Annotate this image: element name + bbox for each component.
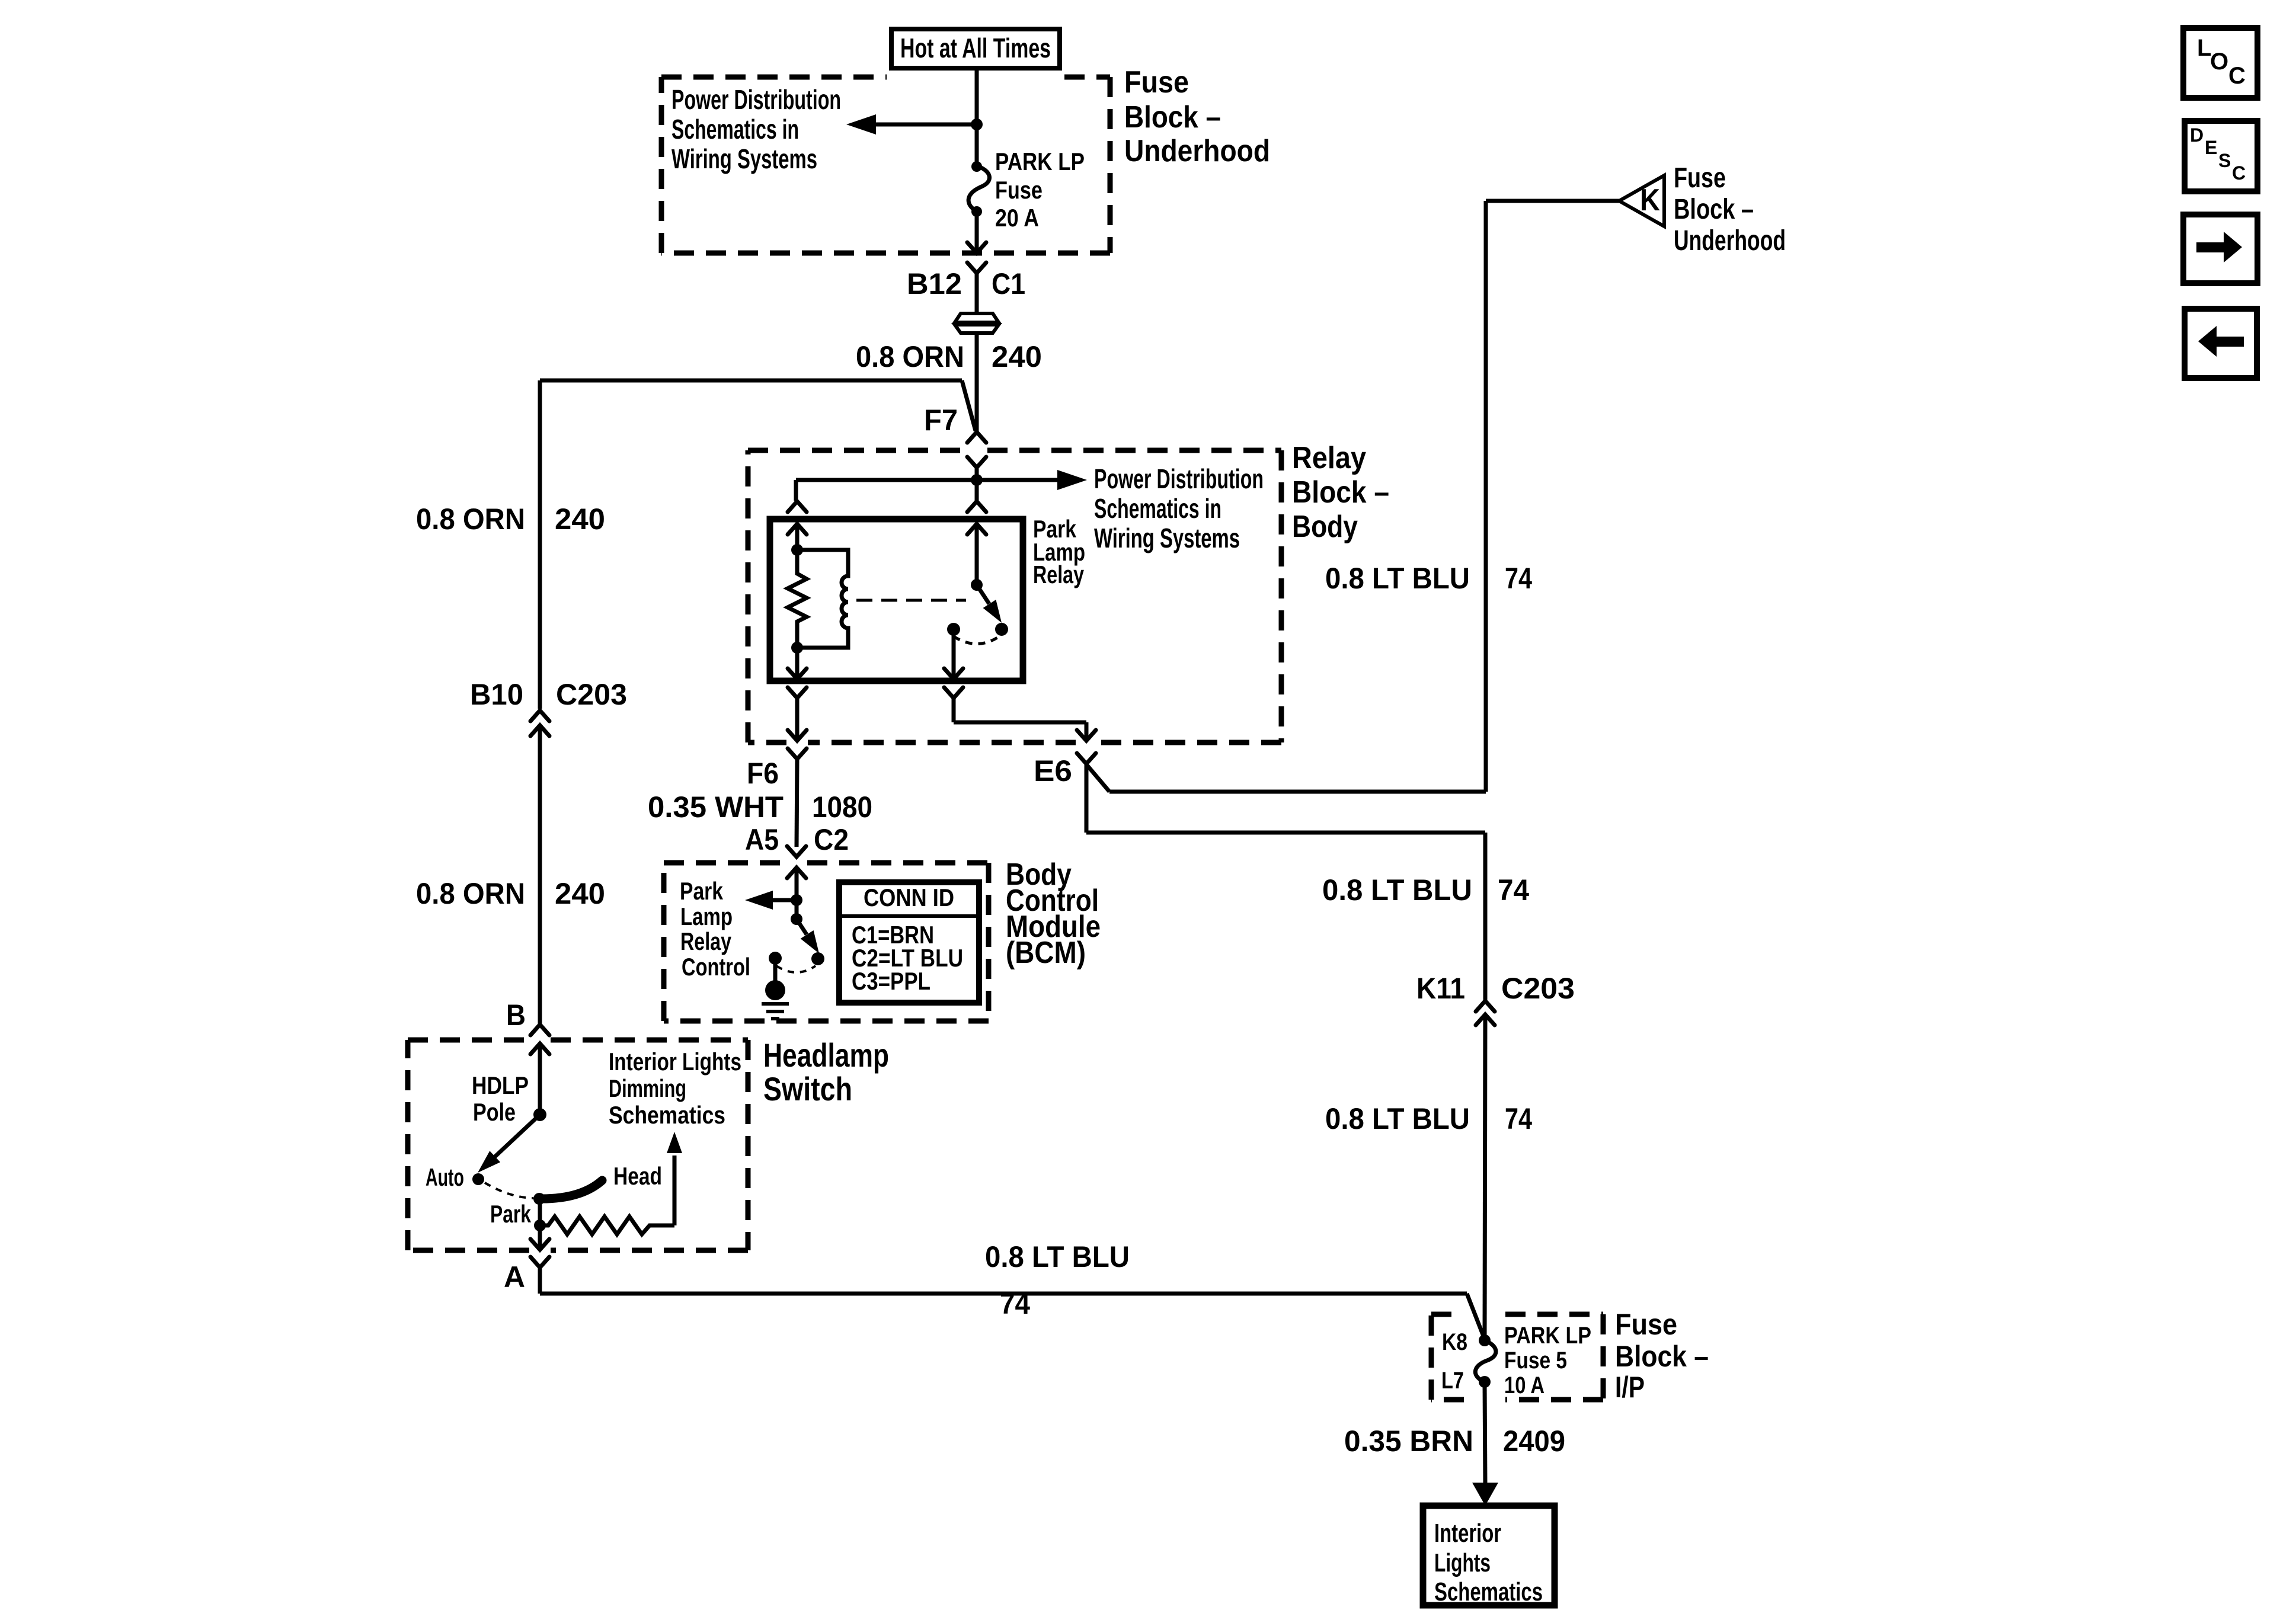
label Headlamp Switch — [763, 1036, 889, 1108]
svg-text:O: O — [2210, 49, 2228, 75]
svg-text:K11: K11 — [1416, 972, 1465, 1005]
svg-text:Hot at All Times: Hot at All Times — [900, 33, 1051, 63]
svg-text:S: S — [2218, 150, 2231, 171]
svg-text:B10: B10 — [470, 678, 523, 711]
connector F7 female — [967, 457, 986, 468]
dashed throw arc BCM switch — [776, 966, 816, 972]
wire arrow to Power Distribution Schematics — [846, 114, 977, 135]
wire label 0.35 BRN 2409 — [1344, 1425, 1565, 1458]
connector below relay box left — [788, 687, 807, 741]
svg-text:Block –: Block – — [1674, 194, 1754, 225]
svg-text:10 A: 10 A — [1504, 1372, 1544, 1398]
svg-text:Block –: Block – — [1615, 1340, 1709, 1373]
node HDLP pole — [533, 1108, 546, 1121]
svg-text:C203: C203 — [556, 678, 627, 711]
svg-text:240: 240 — [555, 877, 605, 910]
label Power Distribution Schematics in Wiring Systems relay — [1094, 463, 1264, 553]
connector pin B12 exit arrow — [967, 242, 986, 253]
svg-text:0.8 ORN: 0.8 ORN — [856, 340, 964, 373]
svg-text:Underhood: Underhood — [1674, 225, 1786, 257]
svg-text:E: E — [2205, 137, 2217, 158]
svg-text:0.8 LT BLU: 0.8 LT BLU — [985, 1240, 1130, 1273]
connector K11 C203 inline — [1476, 1001, 1495, 1340]
label Body Control Module BCM — [1006, 857, 1101, 970]
connector C1 female — [967, 263, 986, 273]
svg-text:Underhood: Underhood — [1124, 134, 1270, 168]
switch arm HDLP pole to Auto — [478, 1115, 540, 1173]
value label PARK LP Fuse 20 A — [995, 148, 1085, 232]
node coil top junction — [791, 544, 803, 556]
svg-text:240: 240 — [992, 340, 1042, 373]
svg-text:20 A: 20 A — [995, 204, 1039, 232]
svg-text:Power Distribution: Power Distribution — [1094, 463, 1264, 494]
connector K triangle Fuse Block Underhood — [1619, 175, 1664, 226]
svg-text:Relay: Relay — [1292, 441, 1366, 475]
svg-text:0.35 BRN: 0.35 BRN — [1344, 1425, 1473, 1458]
node coil bottom junction — [791, 642, 803, 654]
svg-text:Fuse 5: Fuse 5 — [1504, 1347, 1567, 1374]
svg-text:Fuse: Fuse — [1615, 1308, 1677, 1341]
pin label B12 C1 — [907, 267, 1025, 300]
wire C1 to grommet — [975, 273, 979, 313]
wire coil to F6 exit — [788, 648, 807, 679]
wire E6 down to K11 — [1086, 833, 1485, 1000]
fuse block underhood dashed box — [661, 77, 1110, 253]
wire grommet to F7 — [975, 333, 979, 432]
svg-text:Park: Park — [490, 1200, 531, 1228]
svg-text:0.8 LT BLU: 0.8 LT BLU — [1322, 873, 1472, 907]
svg-text:PARK LP: PARK LP — [1504, 1323, 1591, 1349]
value label PARK LP Fuse 5 10 A — [1504, 1323, 1591, 1398]
icon LOC box — [2183, 28, 2257, 98]
node park lamp relay control junction — [791, 894, 802, 906]
connector pin B into headlamp switch — [530, 1025, 549, 1054]
svg-text:I/P: I/P — [1615, 1371, 1645, 1404]
node resistor junction — [534, 1219, 546, 1231]
pin label A5 C2 — [745, 823, 849, 856]
svg-text:Control: Control — [682, 953, 750, 981]
connector below relay box right — [944, 687, 1096, 741]
relay coil input arrow — [788, 524, 807, 551]
wire arrow to Power Distribution Schematics relay — [796, 470, 1087, 501]
svg-text:Fuse: Fuse — [1674, 162, 1726, 194]
svg-text:K: K — [1640, 183, 1660, 217]
svg-text:0.8 ORN: 0.8 ORN — [416, 877, 525, 910]
connector E6 female below relay block — [1077, 753, 1096, 833]
wire K to E6 junction — [1086, 201, 1619, 792]
wire BCM input — [795, 868, 799, 919]
inductor relay coil — [797, 550, 848, 648]
svg-text:Dimming: Dimming — [609, 1074, 686, 1102]
wire contact to E6 exit — [944, 629, 963, 679]
wire label 0.35 WHT 1080 — [648, 790, 872, 824]
svg-text:Lights: Lights — [1434, 1548, 1491, 1577]
connector A5 into BCM — [787, 846, 806, 878]
wire arrow up to dimming schematics — [667, 1132, 682, 1225]
connector F7 male end — [967, 432, 986, 443]
label Park Lamp Relay — [1033, 515, 1085, 588]
fuse PARK LP Fuse 5 10 A — [1475, 1334, 1496, 1388]
label Relay Block - Body — [1292, 441, 1389, 544]
resistor relay internal — [788, 550, 807, 648]
wire label 0.8 ORN 240 — [856, 340, 1042, 373]
svg-text:0.8 ORN: 0.8 ORN — [416, 502, 525, 536]
svg-text:Block –: Block – — [1292, 475, 1389, 510]
node BCM switch pivot — [791, 913, 802, 925]
svg-text:C203: C203 — [1501, 972, 1575, 1005]
svg-text:Relay: Relay — [680, 927, 731, 955]
svg-text:74: 74 — [1498, 873, 1529, 907]
wire label 0.8 LT BLU 74 upper — [1325, 562, 1532, 595]
dashed throw arc relay switch — [954, 635, 1001, 644]
svg-text:Body: Body — [1292, 510, 1358, 544]
wire A to fuse block IP — [540, 1267, 1485, 1339]
svg-text:Wiring Systems: Wiring Systems — [1094, 523, 1240, 553]
wire label 0.8 ORN 240 left lower — [416, 877, 605, 910]
node BCM contact right — [811, 952, 824, 965]
svg-text:Fuse: Fuse — [1124, 65, 1189, 100]
svg-text:C1: C1 — [992, 267, 1025, 300]
svg-text:Auto: Auto — [426, 1163, 464, 1191]
svg-text:L: L — [2197, 35, 2211, 61]
svg-text:A: A — [504, 1260, 525, 1294]
svg-text:Fuse: Fuse — [995, 176, 1043, 204]
svg-text:(BCM): (BCM) — [1006, 936, 1086, 970]
svg-text:0.8 LT BLU: 0.8 LT BLU — [1325, 1102, 1470, 1135]
connector pin A exit — [530, 1239, 549, 1267]
svg-text:0.35 WHT: 0.35 WHT — [648, 790, 784, 824]
node Park position — [533, 1193, 545, 1205]
icon arrow left box — [2185, 309, 2257, 378]
switch arm BCM driver — [797, 919, 819, 953]
node BCM contact left — [769, 952, 782, 965]
svg-text:B: B — [506, 998, 526, 1032]
fuse PARK LP Fuse 20 A — [968, 161, 989, 217]
CONN ID table — [839, 882, 979, 1003]
svg-text:240: 240 — [555, 502, 605, 536]
switch lever Park to Head thick arc — [539, 1180, 602, 1199]
svg-text:B12: B12 — [907, 267, 962, 300]
fuse block IP dashed box — [1431, 1312, 1462, 1317]
BCM dashed box — [664, 860, 786, 866]
svg-text:C: C — [2232, 162, 2246, 184]
label Fuse Block - Underhood — [1124, 65, 1270, 168]
wire from Hot at All Times into fuse block — [975, 66, 979, 168]
svg-text:E6: E6 — [1034, 754, 1072, 788]
svg-text:CONN ID: CONN ID — [864, 884, 954, 911]
wire label 0.8 LT BLU 74 lower — [1325, 1102, 1532, 1135]
wire Park to resistor junction — [538, 1199, 542, 1249]
svg-text:F7: F7 — [924, 404, 958, 437]
svg-text:74: 74 — [1505, 562, 1532, 595]
node switch pivot — [971, 579, 983, 591]
headlamp switch dashed box — [408, 1038, 529, 1043]
pin label B10 C203 — [470, 678, 627, 711]
icon DESC box — [2185, 121, 2257, 191]
label Interior Lights Dimming Schematics — [609, 1048, 741, 1129]
node switch contact right — [995, 623, 1008, 636]
relay block body dashed box — [748, 448, 966, 453]
connector chevrons into relay — [788, 501, 986, 512]
svg-text:PARK LP: PARK LP — [995, 148, 1085, 175]
svg-text:Switch: Switch — [763, 1070, 852, 1108]
wire arrow to Park Lamp Relay Control — [745, 891, 797, 910]
dashed link coil to switch — [856, 599, 966, 602]
svg-text:Relay: Relay — [1033, 561, 1084, 588]
svg-text:Block –: Block – — [1124, 100, 1221, 135]
svg-text:2409: 2409 — [1503, 1425, 1565, 1458]
ground BCM — [762, 980, 789, 1019]
wire branch to headlamp switch — [540, 380, 976, 709]
svg-text:1080: 1080 — [812, 790, 872, 824]
wire label 0.8 LT BLU 74 middle — [1322, 873, 1529, 907]
svg-text:D: D — [2190, 124, 2204, 146]
resistor headlamp dimming — [540, 1217, 674, 1234]
label Fuse Block - IP — [1615, 1308, 1709, 1404]
label HDLP Pole — [472, 1071, 529, 1126]
connector F6 female below relay block — [788, 748, 807, 847]
label Park Lamp Relay Control — [680, 877, 750, 981]
wire relay switch common — [967, 524, 986, 585]
wire contact to ground — [773, 958, 778, 982]
connector B10 C203 inline — [530, 710, 549, 1025]
node junction power distribution relay — [971, 474, 983, 486]
label Power Distribution Schematics in Wiring Systems — [671, 84, 841, 174]
svg-text:C: C — [2228, 63, 2246, 89]
relay K1 park lamp relay box — [770, 519, 1023, 681]
svg-text:A5: A5 — [745, 823, 779, 856]
svg-text:Schematics: Schematics — [609, 1101, 725, 1129]
svg-text:Wiring Systems: Wiring Systems — [671, 143, 817, 174]
svg-text:Schematics in: Schematics in — [671, 114, 799, 145]
svg-text:Pole: Pole — [473, 1098, 516, 1126]
svg-text:C2: C2 — [814, 823, 849, 856]
dashed throw arc Auto to Park — [485, 1183, 533, 1198]
svg-text:K8: K8 — [1442, 1329, 1467, 1355]
node Interior Lights Schematics box — [1423, 1506, 1555, 1606]
node Auto contact — [472, 1173, 484, 1185]
wire label 0.8 ORN 240 left upper — [416, 502, 605, 536]
pin label K11 C203 — [1416, 972, 1575, 1005]
label Fuse Block - Underhood right — [1674, 162, 1786, 257]
svg-text:Park: Park — [680, 877, 724, 905]
node Hot at All Times — [891, 29, 1060, 68]
svg-text:Power Distribution: Power Distribution — [671, 84, 841, 115]
switch arm relay — [977, 585, 1002, 623]
svg-text:Headlamp: Headlamp — [763, 1036, 889, 1074]
node junction to power distribution — [971, 119, 983, 130]
svg-text:L7: L7 — [1441, 1368, 1464, 1394]
wire fuse to block exit — [975, 212, 979, 252]
svg-text:0.8 LT BLU: 0.8 LT BLU — [1325, 562, 1470, 595]
svg-text:Head: Head — [613, 1162, 662, 1190]
svg-text:HDLP: HDLP — [472, 1071, 529, 1099]
svg-text:Interior Lights: Interior Lights — [609, 1048, 741, 1076]
svg-text:Interior: Interior — [1434, 1519, 1501, 1548]
svg-text:F6: F6 — [747, 757, 779, 790]
wire F7 to junction — [975, 468, 979, 501]
grommet pass-through — [955, 313, 999, 333]
wire B to HDLP pole — [538, 1044, 542, 1115]
svg-text:74: 74 — [1505, 1102, 1532, 1135]
wire arrow to interior lights schematics — [1472, 1382, 1498, 1506]
svg-text:Schematics in: Schematics in — [1094, 493, 1221, 524]
icon arrow right box — [2183, 215, 2257, 283]
svg-text:C3=PPL: C3=PPL — [852, 967, 930, 995]
svg-text:Schematics: Schematics — [1434, 1577, 1543, 1606]
node switch contact left — [947, 623, 960, 636]
svg-text:Lamp: Lamp — [680, 902, 733, 930]
